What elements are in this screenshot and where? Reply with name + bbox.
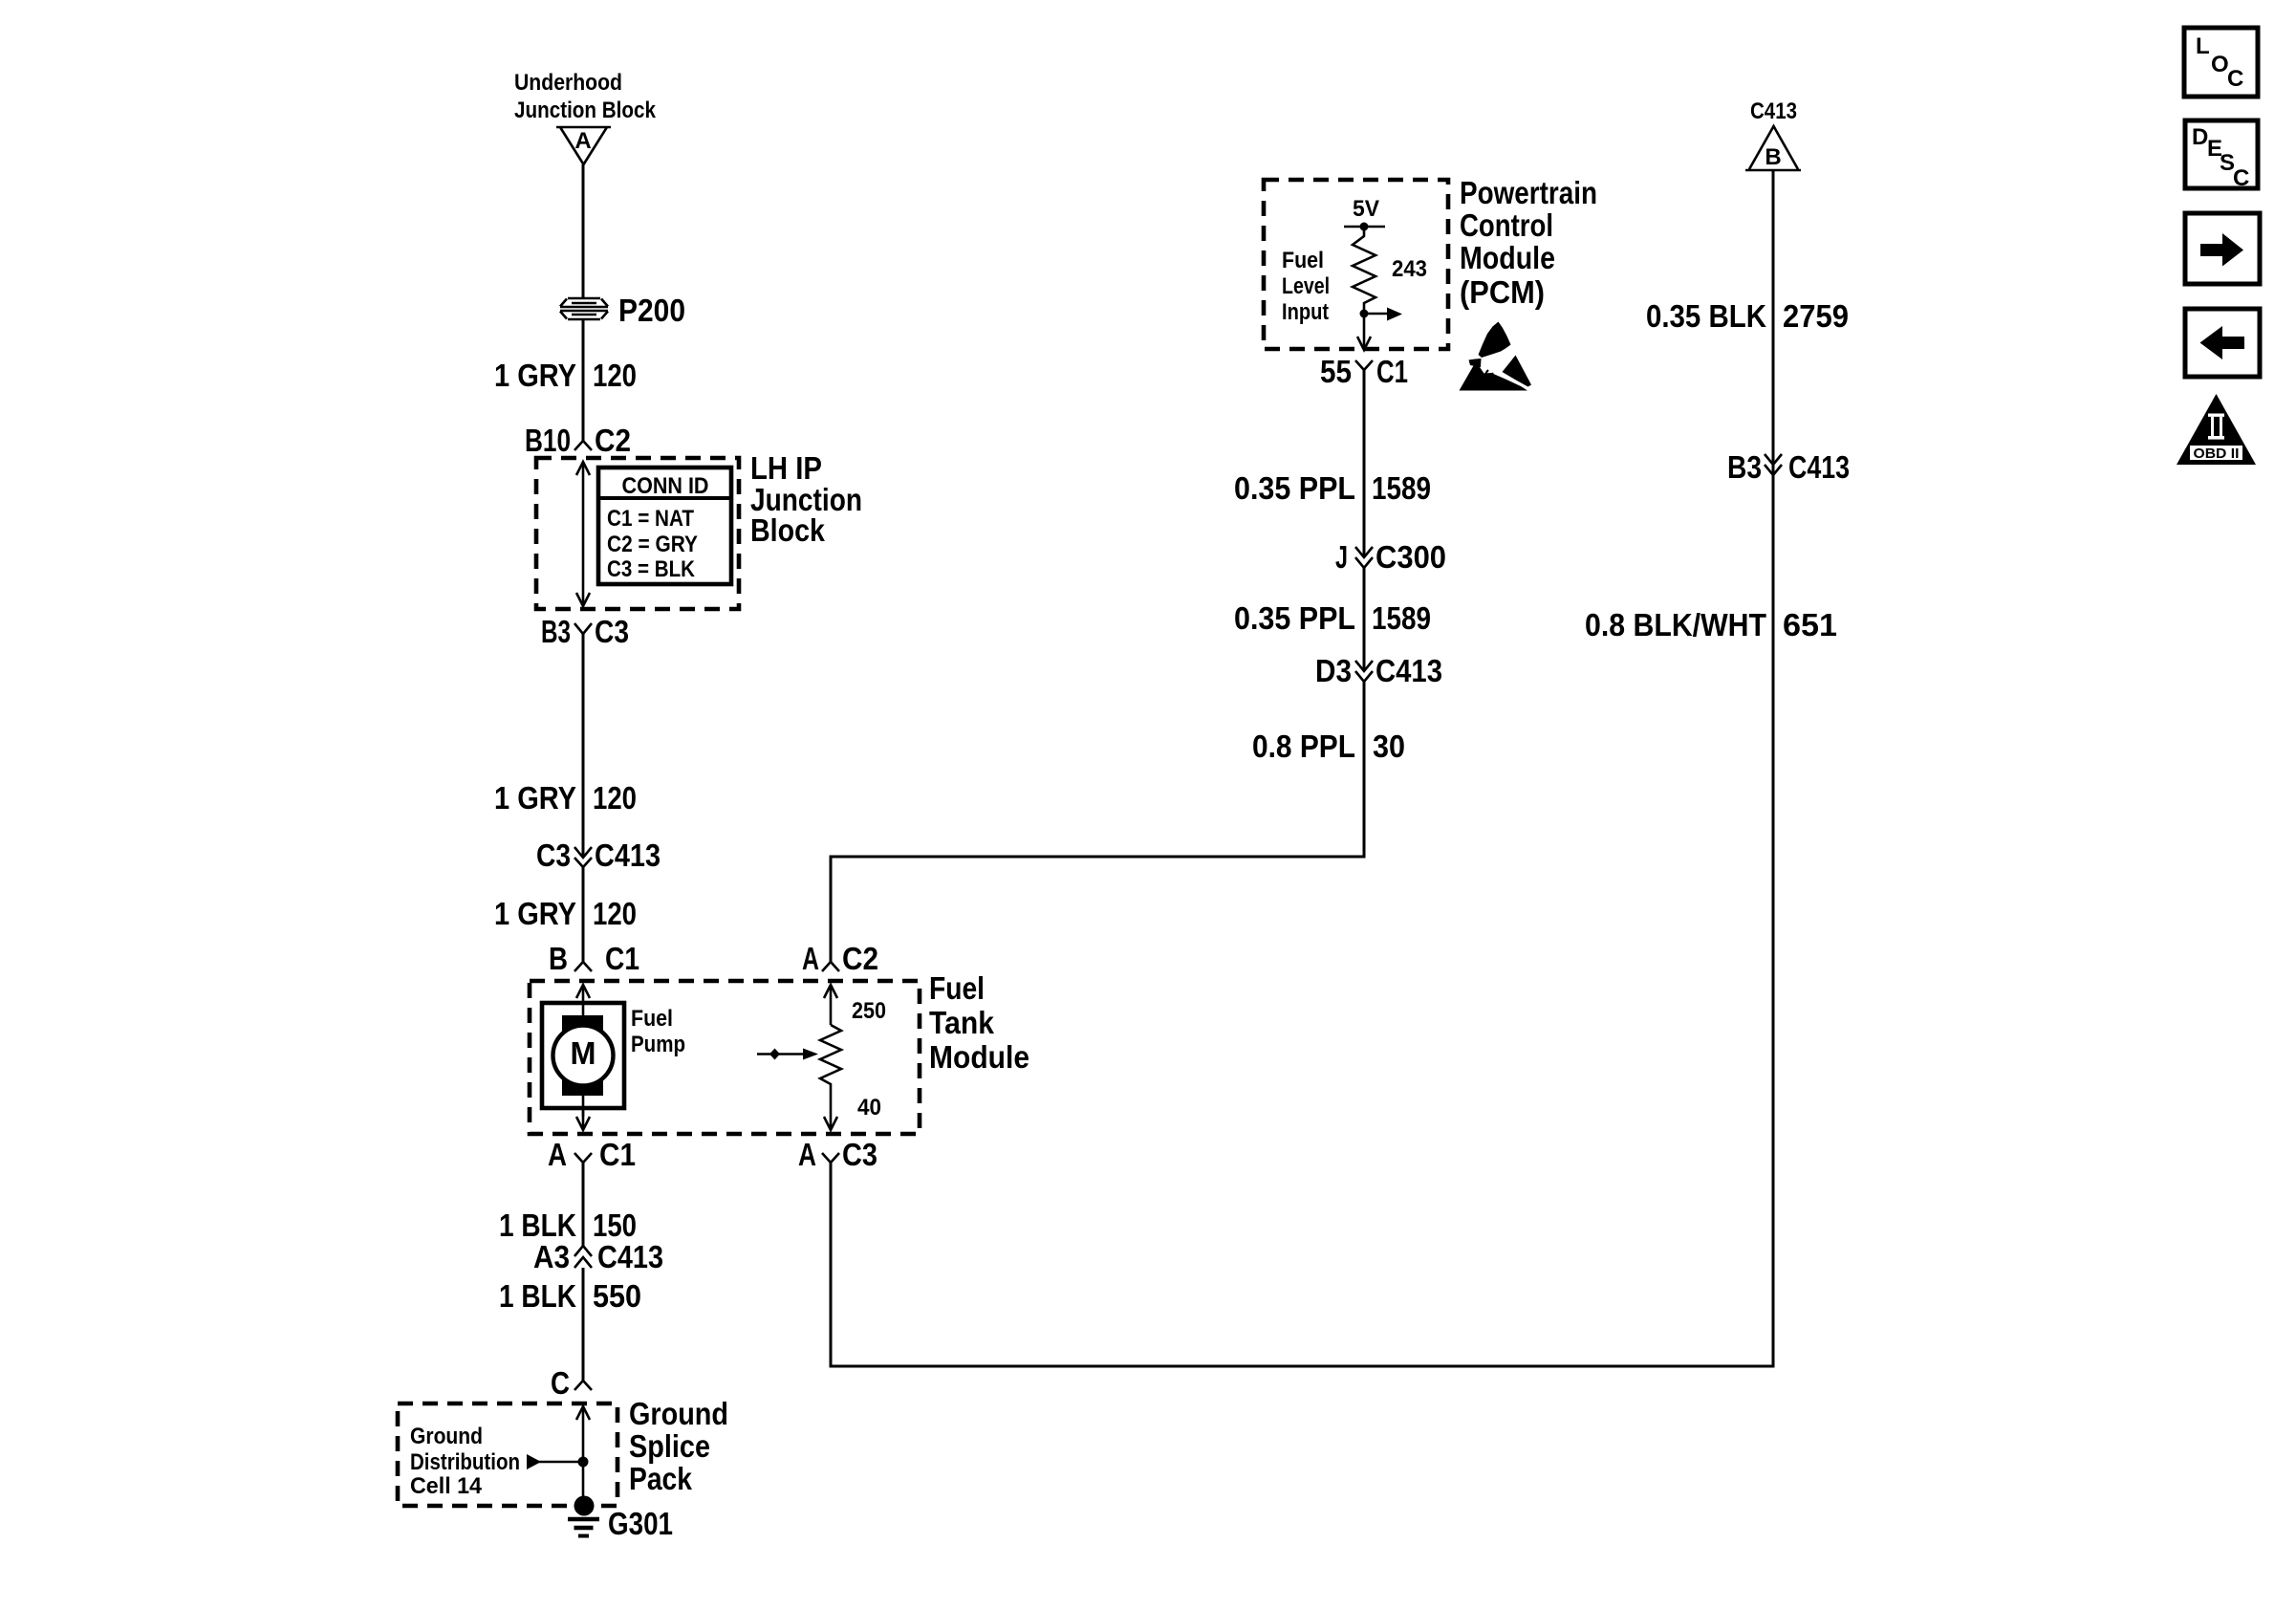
svg-text:B: B [549,941,568,976]
svg-text:C3: C3 [595,614,629,649]
svg-text:Level: Level [1282,273,1330,299]
svg-text:C: C [2233,165,2249,191]
label: Fuel Level Input [1282,248,1330,325]
svg-text:Fuel: Fuel [631,1006,673,1032]
svg-text:B10: B10 [525,423,571,458]
connector triangle A (Underhood Junction Block off-sheet) [556,127,611,164]
svg-text:Module: Module [1460,240,1555,275]
splice junction dot [578,1457,589,1468]
forward arrow icon box [2185,213,2260,284]
svg-text:J: J [1335,539,1348,575]
svg-text:C413: C413 [1750,98,1797,124]
svg-text:C2 = GRY: C2 = GRY [607,532,698,557]
svg-text:G301: G301 [608,1506,673,1541]
svg-text:550: 550 [593,1278,641,1314]
PCM sense node dot and arrow [1360,308,1403,321]
svg-text:C1: C1 [605,941,639,976]
fuel pump feed arrow (into module) [576,985,590,1003]
ESD sensitivity symbol [1460,322,1532,391]
wire label 0.8 BLK/WHT 651 [1585,607,1837,642]
in-line connector D3 C413 [1315,653,1442,688]
svg-text:C3: C3 [536,838,571,873]
svg-text:55: 55 [1320,354,1352,389]
grommet P200 [560,298,608,319]
svg-text:C: C [2227,66,2243,92]
svg-text:C413: C413 [595,838,661,873]
svg-text:C1 = NAT: C1 = NAT [607,506,694,532]
svg-text:M: M [571,1035,596,1071]
in-line connector J C300 [1335,539,1446,575]
label: Fuel Pump [631,1006,685,1057]
svg-text:L: L [2196,33,2210,59]
wire: J/C300 down to D3/C413 [1363,568,1366,671]
ground distribution reference arrow [527,1454,583,1469]
svg-text:D: D [2192,124,2208,150]
svg-text:0.35 PPL: 0.35 PPL [1234,470,1355,506]
svg-text:1 GRY: 1 GRY [494,780,576,816]
label: Underhood Junction Block [514,70,657,123]
5V supply rail with node dot [1344,223,1385,231]
wire label 0.35 PPL 1589 (upper) [1234,470,1431,506]
wire: D3/C413 down and left to A/C2 [831,682,1364,962]
svg-text:243: 243 [1392,256,1427,282]
svg-text:Ground: Ground [629,1396,728,1431]
svg-text:Junction Block: Junction Block [514,98,657,123]
svg-text:A3: A3 [533,1239,570,1274]
svg-text:Ground: Ground [410,1424,483,1449]
svg-text:B3: B3 [541,614,571,649]
svg-text:0.8 PPL: 0.8 PPL [1252,729,1355,764]
connector half B3 C3 (out of LH IP junction block) [541,614,629,649]
sender wiper arrow [757,1049,818,1060]
wire label 0.8 PPL 30 [1252,729,1405,764]
svg-text:1589: 1589 [1372,600,1431,636]
svg-text:A: A [574,128,591,154]
svg-text:Underhood: Underhood [514,70,622,96]
svg-text:2759: 2759 [1783,298,1849,334]
ground terminal dot G301 [574,1496,595,1516]
svg-text:B3: B3 [1727,449,1762,485]
svg-text:120: 120 [593,780,637,816]
svg-text:651: 651 [1783,607,1837,642]
wire: A3/C413 down to C (ground splice pack) [582,1268,585,1381]
sender feed arrow (into module) [824,985,837,1025]
svg-text:B: B [1765,144,1781,170]
sender ground arrow (out of module) [824,1117,837,1130]
svg-text:C413: C413 [1788,449,1850,485]
connector half A C3 (out of Fuel Tank Module) [798,1137,877,1172]
fuel pump ground arrow (out of module) [576,1108,590,1130]
svg-text:A: A [548,1137,567,1172]
resistor 243 (PCM pull-up) [1353,227,1427,314]
splice pack internal wire with up arrow [576,1406,590,1499]
svg-text:C1: C1 [1376,354,1408,389]
svg-text:0.35 PPL: 0.35 PPL [1234,600,1355,636]
internal bus wire with arrows (LH IP junction block) [576,462,590,606]
connector half 55 C1 (out of PCM) [1320,354,1408,389]
PCM output wire with down arrow [1357,314,1371,350]
svg-text:Distribution: Distribution [410,1449,520,1475]
connector triangle B (C413 off-sheet) [1745,126,1801,170]
wire label 1 GRY 120 (top) [494,358,637,393]
svg-text:C3 = BLK: C3 = BLK [607,556,696,582]
svg-text:C: C [551,1365,570,1401]
back arrow icon box [2185,309,2260,377]
svg-text:C2: C2 [595,423,631,458]
in-line connector C3 C413 [536,838,661,873]
OBD II icon [2177,394,2256,465]
svg-text:Control: Control [1460,207,1553,243]
svg-text:O: O [2211,52,2229,77]
label: Powertrain Control Module (PCM) [1460,175,1597,310]
wire label 1 BLK 550 [499,1278,641,1314]
in-line connector B3 C413 [1727,449,1850,485]
svg-text:Input: Input [1282,299,1329,325]
svg-text:0.35 BLK: 0.35 BLK [1646,298,1766,334]
svg-text:Block: Block [750,512,826,548]
svg-text:Fuel: Fuel [1282,248,1324,273]
svg-text:Pack: Pack [629,1461,693,1496]
svg-text:30: 30 [1373,729,1405,764]
Ground Splice Pack dashed box [398,1403,617,1506]
ground symbol G301 [568,1519,599,1536]
svg-text:120: 120 [593,358,637,393]
wire label 1 GRY 120 (third) [494,896,637,931]
svg-text:1 BLK: 1 BLK [499,1207,576,1243]
svg-text:250: 250 [852,998,886,1024]
wire: 55/C1 down to J/C300 [1363,370,1366,557]
svg-text:A: A [802,941,819,976]
connector half A C1 (out of Fuel Tank Module) [548,1137,636,1172]
svg-text:C413: C413 [597,1239,663,1274]
svg-text:C413: C413 [1375,653,1442,688]
svg-text:C1: C1 [599,1137,636,1172]
svg-text:OBD II: OBD II [2194,446,2240,462]
svg-text:1 GRY: 1 GRY [494,896,576,931]
svg-text:120: 120 [593,896,637,931]
svg-text:CONN ID: CONN ID [622,473,709,499]
connector half B10 C2 (into LH IP junction block) [525,423,631,458]
svg-text:0.8 BLK/WHT: 0.8 BLK/WHT [1585,607,1766,642]
wire: C3/C413 down to B/C1 [582,867,585,962]
svg-text:(PCM): (PCM) [1460,274,1545,310]
label: LH IP Junction Block [750,450,862,548]
svg-text:1 BLK: 1 BLK [499,1278,576,1314]
svg-text:1589: 1589 [1372,470,1431,506]
svg-text:5V: 5V [1353,196,1379,222]
svg-text:150: 150 [593,1207,637,1243]
svg-text:Tank: Tank [929,1005,995,1040]
Powertrain Control Module dashed box [1264,180,1448,349]
svg-text:40: 40 [857,1095,881,1120]
LH IP Junction Block dashed box [536,458,739,609]
wire: A/C1 down to A3/C413 [582,1163,585,1246]
wire: triangle A to P200 (GRY) [582,164,585,298]
svg-text:LH IP: LH IP [750,450,822,486]
wire label 1 BLK 150 [499,1207,637,1243]
label: Ground Distribution Cell 14 [410,1424,520,1499]
DESC icon box [2185,120,2258,191]
svg-text:Cell 14: Cell 14 [410,1473,483,1499]
wire label 0.35 PPL 1589 (lower) [1234,600,1431,636]
in-line connector A3 C413 [533,1239,663,1274]
svg-text:C3: C3 [842,1137,877,1172]
CONN ID table [598,468,731,584]
svg-text:C300: C300 [1375,539,1446,575]
Fuel Tank Module dashed box [530,981,920,1134]
svg-text:Powertrain: Powertrain [1460,175,1597,210]
svg-text:Pump: Pump [631,1032,685,1057]
svg-text:C2: C2 [842,941,878,976]
wire label 1 GRY 120 (second) [494,780,637,816]
LOC icon box [2184,28,2258,97]
svg-text:Splice: Splice [629,1428,710,1464]
svg-text:Module: Module [929,1039,1029,1075]
svg-text:Fuel: Fuel [929,970,985,1006]
fuel pump motor M [542,1003,624,1117]
label: Fuel Tank Module [929,970,1029,1075]
connector half C (into ground splice pack) [551,1365,592,1401]
wire: P200 to B10/C2 [582,319,585,441]
svg-text:P200: P200 [618,293,685,328]
svg-text:A: A [798,1137,816,1172]
label: Ground Splice Pack [629,1396,728,1496]
svg-text:1 GRY: 1 GRY [494,358,576,393]
wire: A/C3 down, right, and up to triangle B [831,171,1773,1366]
connector half B C1 (into Fuel Tank Module) [549,941,639,976]
svg-text:D3: D3 [1315,653,1352,688]
wire: B3/C3 down to C3/C413 [582,634,585,858]
connector half A C2 (into Fuel Tank Module) [802,941,878,976]
wire label 0.35 BLK 2759 [1646,298,1849,334]
fuel level sender resistor 250/40 [820,998,886,1120]
